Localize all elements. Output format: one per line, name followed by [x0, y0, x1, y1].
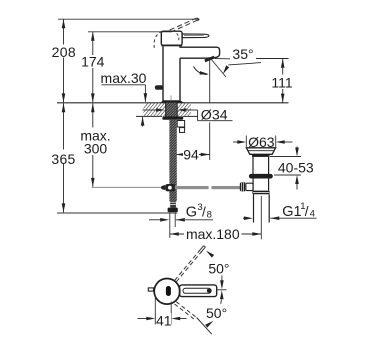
rod inside body: [170, 96, 172, 101]
dimension 40-53: [270, 147, 314, 190]
dashed arc handle swing left: [154, 31, 162, 47]
svg-text:Ø34: Ø34: [201, 107, 228, 123]
dashed lever swung up 50deg: [175, 246, 206, 282]
top view lever outline: [180, 285, 217, 297]
drain body upper: [252, 157, 254, 174]
dashed lever swung down 50deg: [175, 302, 212, 334]
dimension O63: [233, 134, 293, 150]
stream direction line 35deg: [211, 60, 226, 78]
hose crimp ferrule: [170, 201, 176, 208]
top view circle faucet body: [154, 279, 180, 305]
top view cartridge pill: [166, 286, 171, 296]
drain pop-up waste flange: [246, 148, 275, 155]
hose connection stub 1: [177, 121, 184, 128]
body left edge: [162, 46, 164, 101]
svg-text:35°: 35°: [232, 46, 253, 62]
wire deck bottom line left: [136, 115, 162, 117]
svg-text:174: 174: [81, 54, 105, 70]
hose connection stub 2: [180, 128, 185, 133]
svg-text:365: 365: [51, 151, 75, 167]
threaded shank below deck: [166, 103, 177, 117]
tailpipe centerline: [260, 196, 262, 239]
svg-text:/: /: [202, 205, 206, 220]
dimension max.30: [101, 70, 148, 127]
svg-text:4: 4: [310, 208, 315, 219]
wire deck countertop line: [57, 102, 289, 104]
arc arrow lower 50: [205, 319, 214, 327]
svg-text:50°: 50°: [206, 305, 227, 321]
top view lever end dot: [207, 289, 212, 293]
rod ball joint: [166, 184, 175, 191]
wire extension line 174: [88, 31, 170, 33]
raised lever dashed: [154, 18, 199, 48]
wire extension line hose end to 365: [57, 212, 177, 214]
deck hatch right: [171, 103, 199, 116]
svg-text:max.30: max.30: [101, 70, 147, 86]
svg-text:8: 8: [207, 209, 212, 220]
knob collar: [246, 183, 253, 190]
rod left end cap: [161, 185, 165, 191]
dimension G1 1/4: [243, 201, 317, 220]
wire extension line rod to max.300: [92, 186, 162, 188]
flow swivel arrow: [194, 67, 208, 75]
flange underside band: [252, 154, 270, 157]
dimension 365: [51, 103, 78, 212]
dimension 208: [51, 19, 77, 102]
rod attachment knob knurled: [240, 182, 246, 191]
pop-up rod knob on body: [155, 85, 164, 90]
dimension G3/8: [149, 202, 213, 238]
mounting nut: [162, 116, 183, 119]
dimension O34: [143, 104, 233, 124]
hose end nut G3/8: [168, 208, 178, 213]
arc arrow upper 50: [205, 249, 214, 257]
deck hatch left: [137, 103, 174, 116]
faucet body side view: [161, 31, 220, 103]
dimension 94: [176, 59, 210, 163]
pop-up rod: [164, 186, 209, 189]
dimension 111: [215, 58, 295, 102]
svg-text:/: /: [305, 204, 309, 219]
tailpipe: [253, 194, 255, 222]
top view side knob stub: [148, 288, 153, 291]
drain body lower: [252, 179, 254, 191]
lever arm: [182, 34, 209, 38]
svg-text:G: G: [186, 205, 197, 221]
top view lever reference line: [217, 289, 227, 291]
dimension max.180: [170, 226, 261, 242]
svg-text:50°: 50°: [208, 261, 229, 277]
svg-text:94: 94: [183, 147, 199, 163]
svg-text:111: 111: [271, 75, 292, 91]
spout outline: [180, 47, 220, 58]
dimension 174: [81, 32, 105, 103]
svg-text:41: 41: [156, 312, 172, 328]
svg-text:208: 208: [52, 44, 76, 60]
body right edge: [179, 46, 181, 48]
drain bottom nut: [252, 191, 269, 195]
braided flex hose: [169, 120, 176, 202]
dimension max.300: [80, 103, 111, 187]
wire top extension line 208: [58, 18, 199, 20]
top view lever inner: [183, 288, 211, 293]
stream angle arc arrow: [228, 63, 261, 65]
wire deck bottom line right: [183, 115, 198, 117]
dimension 41: [138, 296, 187, 329]
handle cap: [161, 31, 182, 45]
svg-text:300: 300: [84, 141, 108, 157]
svg-text:max.180: max.180: [186, 226, 240, 242]
drain clamping ring: [249, 174, 273, 179]
svg-text:G1: G1: [282, 204, 301, 220]
aerator angled face: [205, 57, 214, 61]
dashed arc inside cap: [177, 33, 179, 42]
handle cap base thick line: [161, 44, 182, 46]
svg-text:40-53: 40-53: [278, 160, 314, 176]
base plinth: [161, 100, 184, 103]
svg-text:Ø63: Ø63: [248, 134, 275, 150]
